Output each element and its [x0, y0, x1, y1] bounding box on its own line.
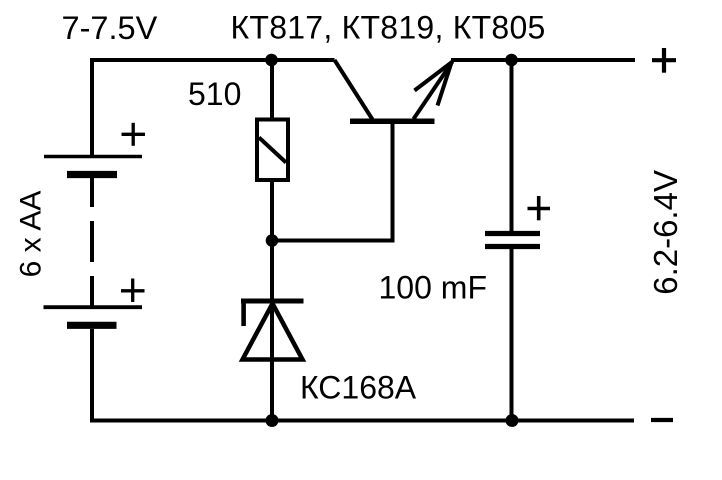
wire bottom rail (battery minus to output minus): [92, 329, 634, 421]
battery GB1 top cell short plate: [67, 171, 117, 178]
wire battery inter-cell stub lower: [90, 276, 94, 306]
svg-text:100 mF: 100 mF: [379, 270, 487, 306]
zener diode VD1 anode triangle: [243, 304, 303, 360]
output plus terminal mark: [652, 48, 676, 73]
transistor VT1 emitter lead: [414, 62, 453, 120]
svg-text:6 x AA: 6 x AA: [15, 191, 48, 278]
svg-text:7-7.5V: 7-7.5V: [62, 10, 158, 46]
node junction dot resistor/zener/base: [266, 234, 279, 247]
svg-text:КТ817, КТ819, КТ805: КТ817, КТ819, КТ805: [231, 10, 546, 46]
node junction dot at top rail / resistor: [265, 54, 278, 67]
wire resistor top lead: [270, 60, 274, 120]
output minus terminal mark: [651, 418, 673, 422]
svg-text:КС168А: КС168А: [300, 370, 417, 406]
wire capacitor top lead: [510, 60, 514, 232]
wire battery inter-cell dash: [90, 221, 94, 262]
resistor R1 510 body: [257, 120, 288, 181]
resistor R1 internal diagonal stroke: [259, 138, 286, 163]
battery GB1 top cell long plate: [44, 155, 142, 159]
wire resistor bottom lead to base node: [270, 180, 274, 242]
wire capacitor bottom lead: [510, 249, 514, 420]
node junction dot at capacitor top: [505, 54, 518, 67]
wire base node to transistor base: [272, 123, 393, 241]
capacitor C1 top plate: [485, 231, 540, 236]
transistor VT1 emitter arrowhead barb long: [415, 62, 453, 91]
node junction dot capacitor / bottom rail: [506, 414, 519, 427]
node junction dot zener anode / bottom rail: [266, 414, 279, 427]
wire top rail right (emitter to output plus): [451, 58, 635, 62]
battery bottom cell plus polarity mark: [121, 279, 145, 303]
zener diode VD1 cathode bar with hook: [241, 299, 304, 326]
transistor VT1 collector lead: [335, 60, 373, 120]
transistor VT1 base bar: [350, 119, 435, 125]
svg-text:510: 510: [188, 76, 241, 112]
capacitor C1 bottom plate: [485, 244, 540, 249]
battery bottom cell long plate: [44, 305, 143, 309]
wire top rail left (battery + to collector): [92, 60, 335, 157]
capacitor C1 plus polarity mark: [528, 196, 551, 220]
svg-text:6.2-6.4V: 6.2-6.4V: [647, 170, 684, 295]
wire battery inter-cell stub upper: [90, 178, 94, 207]
battery bottom cell short plate: [67, 322, 117, 329]
wire zener cathode lead: [270, 241, 274, 421]
battery top cell plus polarity mark: [122, 123, 146, 146]
transistor VT1 emitter arrowhead barb short: [438, 64, 452, 106]
